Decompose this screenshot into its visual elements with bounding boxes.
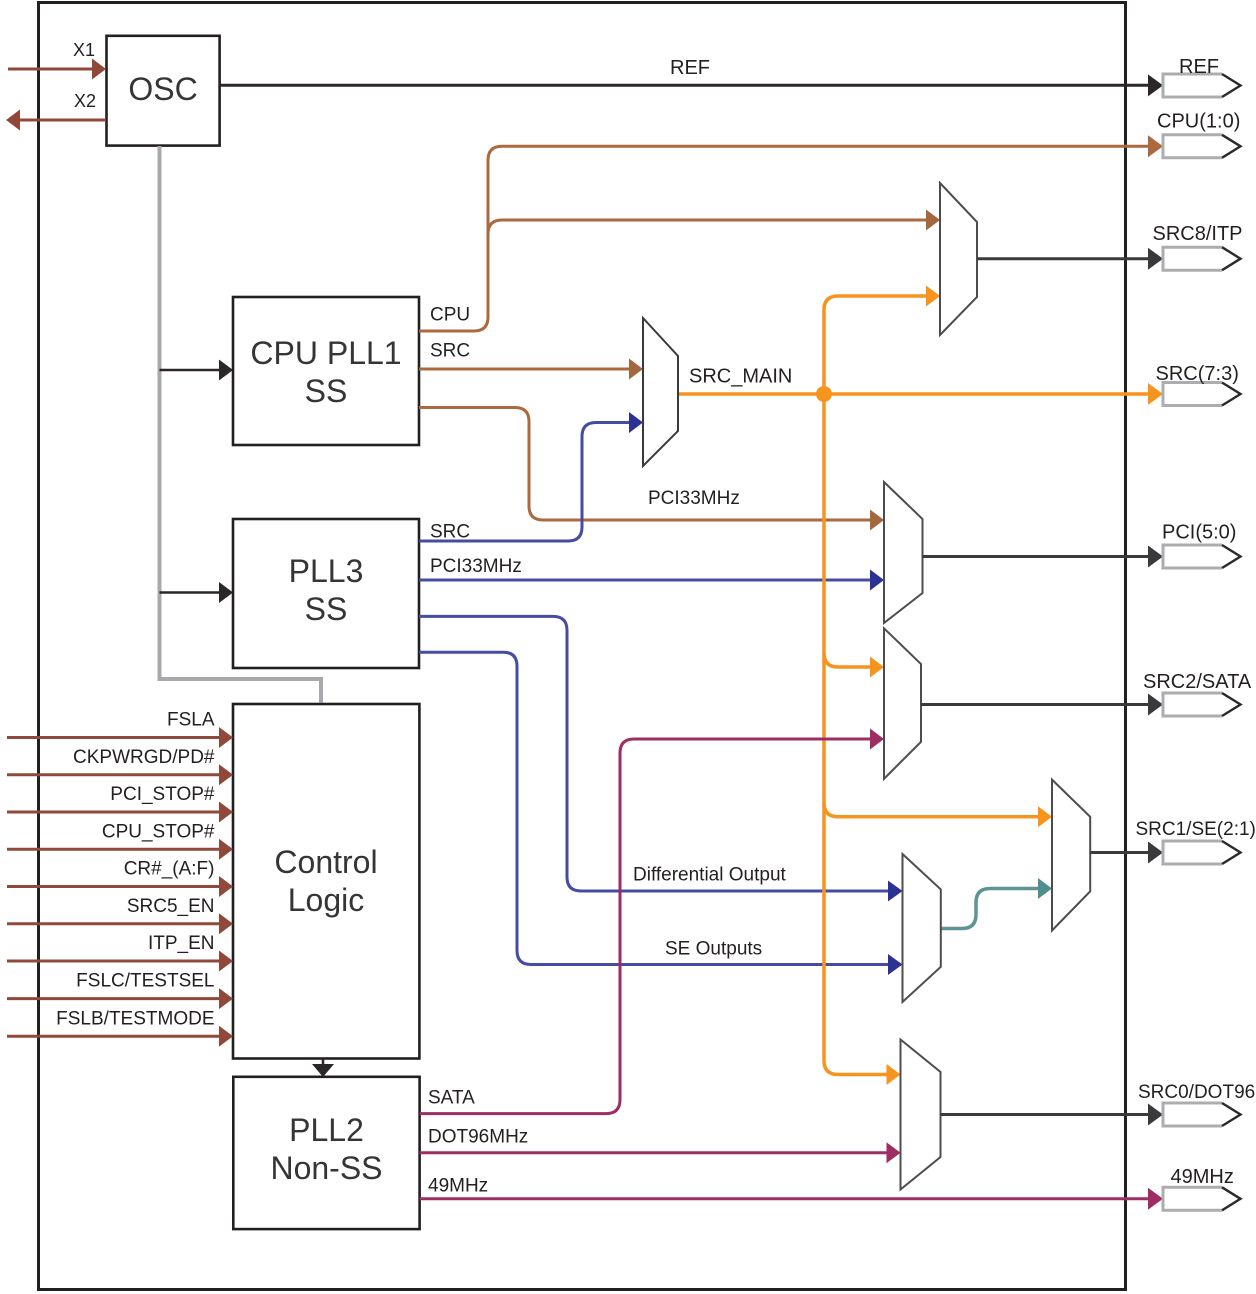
svg-text:SATA: SATA [428, 1088, 475, 1109]
control input SRC5_EN [7, 896, 233, 935]
svg-text:X1: X1 [73, 40, 95, 60]
wire teal from SE mux to SRC1 mux [941, 889, 1038, 929]
wire SRC0 mux output [941, 1113, 1150, 1116]
svg-text:X2: X2 [74, 91, 96, 111]
wire orange up to SRC8 mux [824, 286, 940, 395]
svg-text:49MHz: 49MHz [1171, 1166, 1234, 1188]
svg-text:SRC: SRC [430, 522, 470, 543]
wire CPU output of CPU PLL1 to CPU(1:0) [419, 146, 1149, 331]
svg-text:FSLB/TESTMODE: FSLB/TESTMODE [56, 1008, 214, 1029]
svg-text:Logic: Logic [288, 882, 365, 918]
wire SRC_MAIN orange from mux to SRC(7:3) output [678, 366, 1149, 395]
wire PCI33MHz blue from PLL3 to PCI mux [419, 556, 884, 591]
svg-text:SRC: SRC [430, 341, 470, 362]
control input FSLB/TESTMODE [7, 1008, 233, 1047]
wire SRC blue from PLL3 to SRC_MAIN mux [419, 412, 643, 543]
output port SRC0/DOT96 [1138, 1082, 1255, 1126]
wire X1 input [8, 40, 106, 80]
svg-text:PCI(5:0): PCI(5:0) [1162, 522, 1236, 544]
svg-text:PCI33MHz: PCI33MHz [430, 556, 522, 577]
svg-text:SRC_MAIN: SRC_MAIN [689, 366, 792, 388]
svg-text:REF: REF [1179, 56, 1219, 78]
PLL2 Non-SS block [233, 1077, 419, 1229]
svg-text:ITP_EN: ITP_EN [148, 933, 215, 954]
output port SRC(7:3) [1148, 363, 1241, 406]
Control Logic block [233, 704, 419, 1059]
svg-text:SRC(7:3): SRC(7:3) [1156, 363, 1239, 385]
control input ITP_EN [7, 933, 233, 972]
mux M2 SRC_MAIN [643, 318, 678, 466]
control input CR#_(A:F) [7, 859, 233, 898]
svg-text:SS: SS [305, 591, 348, 627]
PLL3 SS block [233, 519, 419, 668]
wire SE Outputs blue from PLL3 to SE mux [419, 652, 903, 975]
svg-text:CR#_(A:F): CR#_(A:F) [124, 859, 215, 880]
wire SRC output of CPU PLL1 to SRC_MAIN mux [419, 341, 643, 380]
wire X2 output [6, 91, 106, 131]
svg-text:SRC8/ITP: SRC8/ITP [1153, 223, 1243, 245]
wire REF from OSC to output [220, 57, 1149, 85]
mux M3 PCI [884, 482, 923, 623]
svg-text:PLL2: PLL2 [289, 1112, 364, 1148]
control input CKPWRGD/PD# [7, 747, 233, 786]
wire OSC to CPU PLL1 [160, 360, 234, 381]
CPU PLL1 SS block [233, 297, 419, 445]
control input CPU_STOP# [7, 821, 233, 860]
svg-text:OSC: OSC [128, 71, 197, 107]
svg-text:FSLC/TESTSEL: FSLC/TESTSEL [76, 971, 214, 992]
mux M7 SRC0 [901, 1040, 941, 1190]
mux M5 SE/Differential [903, 854, 941, 1002]
output port SRC8/ITP [1148, 223, 1243, 270]
gray wire OSC clock distribution [160, 146, 322, 703]
mux M6 SRC1 [1052, 780, 1090, 931]
mux M4 SRC2/SATA [884, 628, 921, 779]
wire OSC to PLL3 [160, 582, 234, 603]
svg-text:SRC5_EN: SRC5_EN [127, 896, 215, 917]
wire CPU branch to SRC8 mux [488, 220, 926, 234]
wire DOT96MHz purple from PLL2 to SRC0 mux [420, 1127, 901, 1164]
svg-text:CPU(1:0): CPU(1:0) [1157, 111, 1240, 133]
svg-text:SRC0/DOT96: SRC0/DOT96 [1138, 1082, 1255, 1103]
wire SATA purple from PLL2 to SRC2 mux [420, 729, 884, 1114]
svg-text:DOT96MHz: DOT96MHz [428, 1127, 528, 1148]
wire orange branch to SRC2 mux [824, 653, 884, 678]
svg-text:CPU_STOP#: CPU_STOP# [102, 821, 215, 842]
wire 49MHz purple from PLL2 to output [420, 1176, 1149, 1199]
wire PCI33MHz brown from CPU PLL1 to PCI mux [419, 408, 884, 531]
svg-text:PCI33MHz: PCI33MHz [648, 488, 740, 509]
svg-text:CKPWRGD/PD#: CKPWRGD/PD# [73, 747, 215, 768]
wire SRC8 mux output [977, 257, 1149, 260]
control input FSLC/TESTSEL [7, 971, 233, 1010]
svg-text:Control: Control [274, 844, 377, 880]
control input PCI_STOP# [7, 784, 233, 823]
mux M1 SRC8/ITP [940, 183, 977, 335]
wire PCI mux output [923, 555, 1150, 558]
wire Differential Output blue from PLL3 to SE mux [419, 616, 903, 901]
svg-text:SRC2/SATA: SRC2/SATA [1143, 671, 1252, 693]
svg-text:SS: SS [305, 373, 348, 409]
junction SRC_MAIN node [816, 386, 832, 402]
output port SRC2/SATA [1143, 671, 1252, 716]
svg-text:PCI_STOP#: PCI_STOP# [110, 784, 215, 805]
output port 49MHz [1148, 1166, 1241, 1210]
wire Control Logic to PLL2 [312, 1059, 334, 1078]
svg-text:CPU PLL1: CPU PLL1 [250, 335, 401, 371]
wire orange down to SRC0 mux [824, 394, 901, 1085]
svg-text:FSLA: FSLA [167, 710, 215, 731]
control input FSLA [7, 710, 233, 749]
wire orange branch to SRC1 mux [824, 803, 1052, 828]
wire SRC1 mux output [1090, 851, 1149, 854]
svg-text:Differential Output: Differential Output [633, 865, 787, 886]
svg-text:SE Outputs: SE Outputs [665, 939, 762, 960]
svg-text:PLL3: PLL3 [289, 553, 364, 589]
output port CPU(1:0) [1148, 111, 1241, 158]
svg-text:Non-SS: Non-SS [270, 1150, 382, 1186]
svg-text:REF: REF [670, 57, 710, 79]
wire SRC2 mux output [921, 703, 1149, 706]
svg-text:CPU: CPU [430, 305, 470, 326]
output port SRC1/SE(2:1) [1136, 819, 1256, 864]
output port PCI(5:0) [1148, 522, 1241, 569]
OSC block [107, 36, 220, 146]
svg-text:SRC1/SE(2:1): SRC1/SE(2:1) [1136, 819, 1256, 840]
output port REF [1148, 56, 1241, 97]
svg-text:49MHz: 49MHz [428, 1176, 488, 1197]
